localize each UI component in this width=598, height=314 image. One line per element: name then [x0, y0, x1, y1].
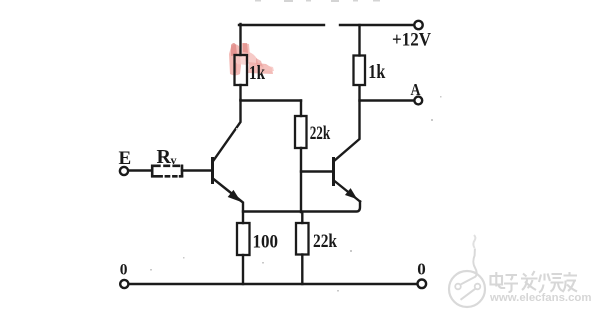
svg-text:A: A	[411, 80, 421, 99]
svg-text:1k: 1k	[368, 61, 385, 83]
svg-text:22k: 22k	[313, 231, 337, 252]
svg-text:0: 0	[417, 260, 426, 279]
svg-text:R: R	[157, 146, 172, 168]
svg-text:E: E	[119, 148, 132, 169]
svg-text:v: v	[171, 153, 177, 167]
svg-text:100: 100	[253, 231, 279, 252]
svg-text:22k: 22k	[310, 124, 331, 144]
svg-text:+12V: +12V	[392, 30, 431, 51]
svg-text:1k: 1k	[249, 62, 266, 84]
svg-text:www.elecfans.com: www.elecfans.com	[489, 292, 592, 304]
svg-text:0: 0	[120, 262, 128, 279]
